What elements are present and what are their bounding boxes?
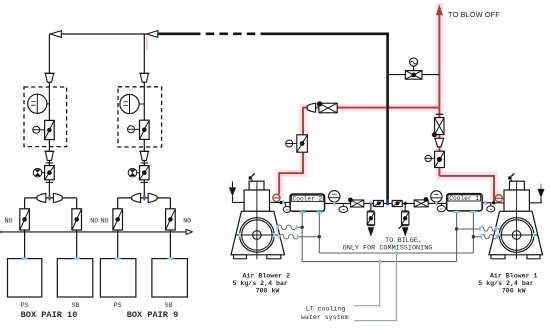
wire cooler1 bottom drop B xyxy=(472,211,474,253)
valve NO pair10 right xyxy=(72,209,82,230)
check valve on blow-off line xyxy=(432,118,444,138)
motor valve chain2 lower xyxy=(128,166,149,180)
blower1 volute casing xyxy=(489,211,543,255)
highlight glow around blower2 red line xyxy=(279,108,441,199)
gate valve manifold left xyxy=(348,198,364,208)
wire branch to blow-off control valve xyxy=(388,74,440,76)
isolating valve V10 on red header xyxy=(317,101,337,113)
wire thick header solid right xyxy=(266,32,389,35)
instrument bubble right of TI xyxy=(339,203,348,212)
motor valve chain1 lower xyxy=(33,166,54,180)
node cooler2 inlet (blue) xyxy=(282,200,284,204)
wire blower2 discharge to cooler2 xyxy=(270,201,291,203)
cooler 1 xyxy=(447,194,483,211)
wire bilge branch left xyxy=(370,203,372,212)
svg-text:BOX PAIR 10: BOX PAIR 10 xyxy=(21,310,78,320)
node flex ends blower1 (blue) xyxy=(480,227,497,239)
node junction flex upper (dot) xyxy=(301,226,304,229)
gate valve manifold right xyxy=(414,197,428,207)
svg-text:Air Blower 1: Air Blower 1 xyxy=(490,272,538,279)
control valve pair9 upper xyxy=(128,120,150,139)
hose coupling chain2 top xyxy=(139,73,149,82)
flex hose blower2 lower xyxy=(279,235,319,239)
box PS of pair9 xyxy=(100,259,135,297)
node junction blower1 discharge xyxy=(492,201,495,204)
node tee pair9 xyxy=(143,195,145,200)
valve NO pair9 left xyxy=(113,209,123,230)
node manifold at TI (blue) xyxy=(333,201,335,205)
blower2 housing xyxy=(244,190,269,211)
instrument bubble left of cooler1 xyxy=(437,203,445,211)
blower1 housing xyxy=(504,190,529,211)
blower2 air intake arrow xyxy=(233,182,245,203)
dashed enclosure pair10 xyxy=(24,87,67,147)
flange chain1 xyxy=(46,162,53,164)
blower2 centerlines xyxy=(236,181,278,259)
blower1 vent glyph xyxy=(508,176,512,180)
flex hose blower1 lower xyxy=(473,235,502,239)
node manifold bilge branch left xyxy=(369,202,372,205)
flange xyxy=(402,210,409,212)
node junction blower2 discharge xyxy=(279,201,282,204)
wire blower1 discharge to cooler1 xyxy=(482,202,504,204)
blower2 volute casing xyxy=(231,211,285,255)
reducer on blow-off line xyxy=(435,138,444,147)
dashed enclosure pair9 xyxy=(118,87,162,147)
svg-text:700 kW: 700 kW xyxy=(502,288,526,295)
arrow to blow off (red, up) xyxy=(436,4,443,15)
flange xyxy=(367,225,374,227)
ball valve small right of riser xyxy=(392,200,402,206)
diffuser horn pair9 right xyxy=(148,193,157,202)
diffuser horn pair9 left xyxy=(132,193,141,202)
tee pair9 wires xyxy=(118,198,171,209)
locked valve on blower2 red riser xyxy=(286,135,308,152)
blow-off control valve xyxy=(405,71,422,80)
flow orifice red at blower2 discharge xyxy=(273,194,280,201)
highlight tick below arrow A2 xyxy=(146,37,148,51)
flange chain2 low xyxy=(141,181,148,183)
node junction flex lower right (dot) xyxy=(472,235,475,238)
hose coupling chain2 lower xyxy=(139,151,149,160)
svg-text:Cooler 1: Cooler 1 xyxy=(449,195,479,202)
svg-text:water system: water system xyxy=(301,314,349,321)
pressure instrument pair10 xyxy=(28,94,50,113)
blower1 air intake arrow (blue stub) xyxy=(540,184,542,189)
connection arrow A2 (left) xyxy=(147,31,158,38)
hose coupling chain1 lower xyxy=(44,151,54,160)
wire thick main riser xyxy=(386,33,389,203)
wires pair9 valves to boxes xyxy=(118,230,171,259)
thermometer TI cooler1 inlet xyxy=(431,191,442,204)
control valve pair10 upper xyxy=(33,120,54,139)
node impeller quadrants blower1 (blue) xyxy=(499,233,534,237)
thermometer TI cooler2 outlet xyxy=(329,191,340,204)
svg-text:LT cooling: LT cooling xyxy=(306,306,346,313)
wire reference line to LT label 1 xyxy=(354,262,380,306)
blower2 pedestal xyxy=(249,181,264,190)
node cooler1 bottom (blue) xyxy=(454,211,477,213)
wire distribution header bottom xyxy=(0,231,186,233)
diffuser horn pair10 left xyxy=(37,193,46,202)
svg-text:NO: NO xyxy=(90,218,98,225)
node cooler2 bottom (blue) xyxy=(299,211,322,213)
connection arrow A1 (left) xyxy=(50,31,61,38)
svg-text:PS: PS xyxy=(114,302,122,309)
air blower 2 xyxy=(229,173,285,259)
pipe red blow-off header vertical xyxy=(438,14,440,176)
pipe red elbow to blower 1 xyxy=(439,176,494,202)
box PS of pair10 xyxy=(8,259,42,297)
silencer horn on red header xyxy=(307,103,315,112)
svg-text:SB: SB xyxy=(72,302,80,309)
node manifold bilge branch right xyxy=(404,202,407,205)
node junction flex lower (dot) xyxy=(318,235,321,238)
blower1 centerlines xyxy=(496,181,538,259)
wire cooler1 bottom drop A xyxy=(456,211,458,262)
node branch (blue) xyxy=(395,251,397,255)
svg-text:SB: SB xyxy=(165,302,173,309)
node box inlets (blue) xyxy=(22,257,174,259)
node header left end (blue) xyxy=(0,230,2,234)
wires pair10 valves to boxes xyxy=(25,230,77,259)
highlight glow around blow-off red line xyxy=(439,3,494,201)
blower2 vent glyph xyxy=(249,176,253,180)
svg-text:PS: PS xyxy=(21,302,29,309)
node cooler1 outlet (blue) xyxy=(484,201,486,205)
diffuser horn pair10 right xyxy=(53,193,62,202)
blower2 impeller circles xyxy=(240,218,275,253)
blower2 feet xyxy=(234,255,247,259)
wire thick header solid left xyxy=(158,32,192,35)
blower1 pedestal xyxy=(510,181,525,190)
svg-text:NO: NO xyxy=(183,218,191,225)
svg-text:NO: NO xyxy=(5,218,13,225)
flow orifice red at blower1 discharge xyxy=(495,195,502,202)
node impeller quadrants blower2 (blue) xyxy=(240,233,275,237)
svg-text:NO: NO xyxy=(101,218,109,225)
node flex ends blower2 (blue) xyxy=(277,225,297,239)
drain valve left xyxy=(367,212,374,225)
box SB of pair10 xyxy=(57,259,93,297)
hose coupling chain1 top xyxy=(44,73,54,82)
svg-text:Air Blower 2: Air Blower 2 xyxy=(243,272,291,279)
wire bilge branch right xyxy=(404,203,406,212)
wire thick header dashed xyxy=(192,32,266,35)
blower1 impeller circles xyxy=(499,218,534,253)
arrow header continuation (right) xyxy=(186,229,192,234)
svg-text:TO BLOW OFF: TO BLOW OFF xyxy=(448,10,500,19)
air blower 1 xyxy=(489,173,545,259)
node riser termination (dark blue) xyxy=(386,199,389,205)
ball valve small left of riser xyxy=(373,200,383,206)
flange xyxy=(367,210,374,212)
wire top header thin xyxy=(49,33,146,35)
wire cooler2 bottom drop A xyxy=(301,211,303,261)
blower1 hub xyxy=(512,231,521,240)
shut-off valve on blow-off line xyxy=(425,151,444,167)
wire interconnecting manifold xyxy=(325,202,447,204)
svg-text:700 kW: 700 kW xyxy=(256,288,280,295)
wire reference line to LT label 2 xyxy=(354,253,396,321)
node branch (blue) xyxy=(379,259,381,263)
node tee pair10 xyxy=(48,195,50,200)
flex hose blower2 upper xyxy=(277,225,302,229)
flange xyxy=(402,225,409,227)
svg-text:BOX PAIR 9: BOX PAIR 9 xyxy=(127,310,179,320)
flange on blow-off line xyxy=(436,113,444,115)
arrow to bilge left (down) xyxy=(368,227,375,237)
flex hose blower1 upper xyxy=(457,227,503,231)
wire chain 2 drop xyxy=(143,34,145,198)
wire LT supply inner xyxy=(319,252,473,254)
blower2 hub xyxy=(253,231,262,240)
blower1 feet xyxy=(491,255,505,259)
drain spout handle right xyxy=(399,225,403,229)
pipe red horizontal to valve V10 and down to blower 2 xyxy=(279,108,439,195)
cooler 2 xyxy=(290,194,325,211)
drain valve right xyxy=(402,212,409,225)
valve NO pair9 right xyxy=(166,209,176,230)
instrument bubble under blower2 discharge xyxy=(283,203,291,213)
wire chain 1 drop xyxy=(48,34,50,198)
box SB of pair9 xyxy=(152,259,188,297)
flange chain2 xyxy=(141,162,148,164)
valve NO pair10 left xyxy=(20,209,30,230)
wire cooler2 bottom drop B xyxy=(318,211,320,253)
svg-text:5 kg/s 2,4 bar: 5 kg/s 2,4 bar xyxy=(478,280,533,287)
svg-text:ONLY FOR COMMISSIONING: ONLY FOR COMMISSIONING xyxy=(343,245,433,253)
tee pair10 wires xyxy=(25,198,77,209)
instrument bubble under blower1 discharge xyxy=(487,203,495,212)
node junction flex upper right (dot) xyxy=(455,227,458,230)
flange chain1 low xyxy=(46,181,53,183)
wire LT supply outer xyxy=(302,261,456,263)
svg-text:5 kg/s 2,4 bar: 5 kg/s 2,4 bar xyxy=(232,280,287,287)
pressure instrument pair9 xyxy=(120,94,144,113)
actuator (spring) of blow-off control valve xyxy=(413,66,415,70)
node manifold at TI right (blue) xyxy=(435,201,437,205)
svg-text:Cooler 2: Cooler 2 xyxy=(293,195,323,202)
arrow to bilge right (down) xyxy=(402,227,409,237)
